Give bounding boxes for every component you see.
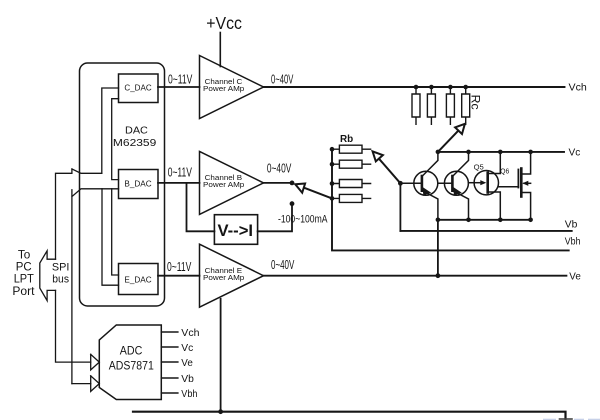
svg-text:Vch: Vch — [569, 82, 587, 94]
wire inner rail C_DAC pin2 to B_DAC pin1 — [112, 99, 119, 180]
svg-text:Power AMp: Power AMp — [203, 86, 244, 93]
wire amp B input to V-I converter — [187, 183, 215, 231]
ADC pin Vc — [161, 346, 178, 348]
selector arrow to amp B output node — [295, 184, 332, 199]
wire V-I output to node — [258, 204, 292, 232]
wire bottom ground rail — [133, 412, 566, 419]
wire amp E to bottom rail — [220, 299, 222, 412]
op-amp U1 Channel C Power AMp — [200, 56, 264, 119]
svg-text:Power AMp: Power AMp — [203, 275, 244, 282]
svg-text:ADC: ADC — [120, 346, 143, 358]
transistor Q6 (MOSFET) — [499, 152, 531, 220]
C_DAC box — [119, 74, 159, 103]
svg-text:Power AMp: Power AMp — [203, 182, 244, 189]
resistor Rb bank 2 — [332, 160, 371, 168]
wire Ve line — [263, 275, 567, 277]
op-amp U4 Channel E Power AMp — [200, 244, 264, 307]
svg-text:Rb: Rb — [340, 133, 353, 145]
svg-text:bus: bus — [52, 274, 69, 286]
svg-text:ADS7871: ADS7871 — [109, 360, 154, 372]
svg-text:Port: Port — [12, 284, 35, 298]
svg-text:Vch: Vch — [181, 327, 199, 339]
ADC pin Vch — [161, 331, 178, 333]
DAC outer box M62359 — [80, 63, 165, 306]
ADC pin Vbh — [161, 392, 178, 394]
ground — [560, 418, 573, 420]
wire LPT bus to B_DAC (bus entry mark) — [72, 189, 119, 384]
wire BJT1 base to Vb line — [399, 183, 401, 231]
resistor Rc bank 3 — [446, 87, 454, 124]
node BJT1 base — [398, 181, 403, 186]
wire inner rail to E_DAC pin1 — [112, 189, 119, 275]
node dots on bottom rail — [436, 218, 533, 223]
B_DAC box — [119, 170, 159, 199]
svg-text:0~11V: 0~11V — [168, 164, 193, 179]
svg-text:0~11V: 0~11V — [167, 259, 192, 274]
wire B_DAC to amp B — [158, 182, 200, 184]
resistor Rc bank 4 — [462, 87, 470, 124]
transistor Q3 (left BJT) — [400, 152, 438, 220]
op-amp U2 Channel B Power AMp — [200, 151, 264, 214]
svg-text:Ve: Ve — [569, 271, 581, 283]
wire SPI symbol to ADC chevron 1 — [56, 290, 91, 362]
svg-text:Rc: Rc — [468, 95, 482, 110]
svg-text:-100~100mA: -100~100mA — [278, 213, 328, 225]
svg-text:Ve: Ve — [181, 357, 193, 369]
node B output — [290, 181, 295, 186]
svg-text:Vb: Vb — [565, 218, 578, 230]
svg-text:C_DAC: C_DAC — [124, 84, 152, 93]
resistor Rb bank 1 — [332, 145, 371, 153]
svg-text:Vc: Vc — [181, 342, 193, 354]
node dots on Vch rail — [414, 85, 468, 90]
wire LPT bus to ADC chevron 2 — [72, 383, 91, 385]
svg-text:0~11V: 0~11V — [168, 71, 193, 86]
svg-text:DAC: DAC — [125, 125, 148, 136]
svg-text:M62359: M62359 — [113, 138, 157, 149]
resistor Rb bank 4 — [332, 194, 371, 202]
wire amp B output to node — [264, 182, 293, 184]
svg-text:0~40V: 0~40V — [267, 161, 292, 176]
svg-text:Q6: Q6 — [500, 169, 509, 176]
svg-text:Vb: Vb — [181, 373, 194, 385]
svg-text:SPI: SPI — [52, 261, 70, 273]
svg-text:B_DAC: B_DAC — [124, 179, 152, 188]
svg-text:0~40V: 0~40V — [271, 71, 293, 86]
resistor Rc bank 1 — [412, 87, 420, 124]
svg-text:Vc: Vc — [569, 147, 581, 159]
svg-text:Vbh: Vbh — [181, 388, 197, 400]
E_DAC box — [119, 264, 159, 295]
wire inner rail to E_DAC pin2 — [102, 189, 119, 285]
wire Vch rail — [264, 86, 565, 88]
watermark remnants — [543, 419, 600, 420]
selector arrow to Rb — [373, 151, 401, 183]
resistor Rb bank 3 — [332, 180, 371, 188]
svg-text:Vbh: Vbh — [565, 235, 581, 247]
wire bottom rail of output stage — [438, 219, 531, 221]
wire C_DAC to amp C — [158, 86, 200, 88]
svg-text:E_DAC: E_DAC — [124, 276, 152, 285]
node on Ve line — [436, 273, 441, 278]
node dots on Vc rail — [436, 150, 533, 155]
ADC ADS7871 block — [99, 325, 161, 400]
svg-text:+Vcc: +Vcc — [206, 13, 242, 33]
wire E_DAC to amp E — [158, 275, 200, 277]
SPI bus connector symbol — [40, 251, 56, 301]
transistor Q5 (circled MOSFET) — [468, 152, 500, 220]
selector arrow to Rc — [438, 124, 465, 152]
svg-text:0~40V: 0~40V — [271, 257, 295, 272]
wire inner rail to C_DAC pin1 — [102, 88, 119, 173]
node dots on Rb feeder — [330, 147, 335, 201]
svg-text:V-->I: V-->I — [218, 221, 254, 240]
ADC input chevron 1 — [91, 354, 100, 370]
wire Vb line — [400, 230, 571, 232]
transistor Q4 (middle BJT) — [438, 152, 469, 220]
node on bottom rail — [218, 409, 223, 414]
wire SPI bus to C_DAC (bus entry mark) — [56, 169, 102, 259]
resistor Rc bank 2 — [427, 87, 435, 124]
ADC pin Ve — [161, 361, 178, 363]
svg-text:Channel E: Channel E — [205, 268, 243, 275]
wire Vc rail — [438, 151, 564, 153]
To PC LPT Port label — [12, 248, 35, 298]
wire Vcc to amp C — [219, 33, 221, 67]
svg-text:Channel B: Channel B — [205, 175, 243, 182]
svg-text:Channel C: Channel C — [205, 79, 243, 86]
wire emitter drop to Ve — [437, 220, 439, 276]
ADC input chevron 2 — [91, 376, 100, 392]
svg-text:Q5: Q5 — [474, 164, 484, 171]
wire Rb feeder rail to Vbh — [332, 149, 569, 250]
ADC pin Vb — [161, 377, 178, 379]
node V-I output — [290, 201, 295, 206]
